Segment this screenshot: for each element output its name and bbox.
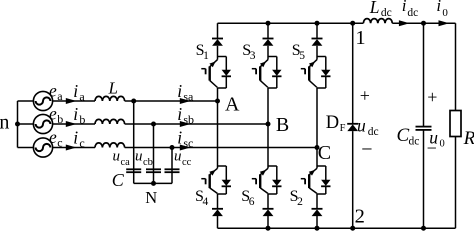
current arrow i_sb <box>177 104 194 127</box>
wire S3 to node <box>267 88 269 124</box>
svg-text:u: u <box>135 149 143 165</box>
ac source e_c <box>33 127 62 157</box>
svg-text:sc: sc <box>183 136 193 150</box>
wire S5 to node <box>316 88 318 148</box>
svg-text:cb: cb <box>143 157 153 168</box>
wire leg S2 lower <box>316 216 318 228</box>
wire n to source b <box>18 123 34 125</box>
svg-text:5: 5 <box>299 50 305 62</box>
wire n to source a <box>18 100 34 102</box>
svg-text:cc: cc <box>182 157 192 168</box>
wire C_dc lower <box>423 130 425 228</box>
diode series S1 <box>212 39 223 46</box>
svg-text:b: b <box>79 112 85 126</box>
switch S1 IGBT <box>196 42 231 88</box>
wire phase c to node C <box>125 147 317 149</box>
wire node to S6 <box>267 124 269 166</box>
svg-text:i: i <box>177 128 182 148</box>
junction tap phase a <box>131 99 136 104</box>
svg-text:dc: dc <box>381 7 392 19</box>
wire node to S4 <box>217 101 219 166</box>
junction top C_dc <box>421 21 426 26</box>
capacitor u_cb <box>135 124 161 183</box>
svg-text:sb: sb <box>183 112 194 126</box>
svg-text:i: i <box>73 81 78 101</box>
switch S6 IGBT <box>241 166 281 208</box>
svg-text:u: u <box>174 149 182 165</box>
node A <box>215 93 240 115</box>
svg-text:e: e <box>49 81 57 101</box>
wire phase b to L <box>53 123 95 125</box>
switch S5 IGBT <box>292 42 331 88</box>
current arrow i_b <box>66 104 86 127</box>
junction bottom leg3 <box>315 226 320 231</box>
svg-text:F: F <box>340 123 346 134</box>
svg-text:−: − <box>427 138 437 158</box>
wire D_F branch upper <box>352 23 354 124</box>
svg-text:L: L <box>369 0 380 17</box>
svg-text:+: + <box>360 85 370 105</box>
wire S4 to diode <box>217 194 219 209</box>
svg-text:1: 1 <box>355 27 365 49</box>
switch S4 IGBT <box>195 166 231 208</box>
current arrow i_sa <box>177 81 194 104</box>
svg-text:ca: ca <box>121 157 131 168</box>
junction tap phase b <box>151 122 156 127</box>
svg-text:dc: dc <box>368 126 379 138</box>
svg-text:−: − <box>361 139 372 161</box>
wire S3 to IGBT <box>267 46 269 57</box>
svg-text:n: n <box>0 112 9 134</box>
junction tap phase c <box>170 145 175 150</box>
svg-text:e: e <box>49 104 57 124</box>
switch S3 IGBT <box>242 42 281 88</box>
svg-text:i: i <box>436 0 441 15</box>
svg-text:2: 2 <box>355 205 365 227</box>
wire left rail <box>17 101 19 148</box>
node 2 <box>350 205 365 230</box>
svg-text:C: C <box>112 170 125 190</box>
current arrow i_a <box>66 81 86 104</box>
svg-text:dc: dc <box>407 7 418 19</box>
svg-text:+: + <box>427 87 437 107</box>
resistor R <box>450 111 474 150</box>
junction top leg2 <box>266 21 271 26</box>
svg-text:2: 2 <box>297 196 303 208</box>
wire R branch upper <box>455 23 457 110</box>
label u_dc <box>357 85 379 160</box>
svg-text:C: C <box>318 142 331 164</box>
node B <box>266 114 290 136</box>
svg-text:i: i <box>177 81 182 101</box>
wire node to S2 <box>316 148 318 167</box>
wire phase a to node A <box>125 100 218 102</box>
svg-text:u: u <box>357 115 366 135</box>
svg-text:sa: sa <box>183 89 194 103</box>
diode series S3 <box>263 39 274 46</box>
wire leg S1 upper <box>217 23 219 38</box>
svg-text:1: 1 <box>203 50 209 62</box>
svg-text:L: L <box>108 79 118 98</box>
svg-text:R: R <box>463 128 474 149</box>
current arrow i_dc <box>399 0 418 26</box>
ac source e_b <box>33 104 63 134</box>
diode series S2 <box>312 209 323 216</box>
wire phase c to L <box>53 147 95 149</box>
capacitor u_cc <box>165 148 192 184</box>
inductor L_dc <box>363 0 392 23</box>
wire S1 to node <box>217 88 219 101</box>
wire D_F branch lower <box>352 131 354 228</box>
diode D_F <box>326 113 359 134</box>
wire S5 to IGBT <box>316 46 318 57</box>
inductor phase c <box>95 143 125 148</box>
node N <box>134 181 172 207</box>
diode series S6 <box>263 209 274 216</box>
svg-text:0: 0 <box>442 7 448 19</box>
ac source e_a <box>33 81 63 111</box>
inductor L phase a <box>95 79 125 102</box>
bottom dc bus <box>218 227 456 229</box>
current arrow i_sc <box>177 128 193 151</box>
junction top leg3 <box>315 21 320 26</box>
svg-text:i: i <box>177 104 182 124</box>
svg-text:i: i <box>73 128 78 148</box>
svg-text:N: N <box>145 188 157 207</box>
svg-text:4: 4 <box>203 196 209 208</box>
switch S2 IGBT <box>290 166 331 208</box>
svg-text:6: 6 <box>249 196 255 208</box>
diode series S4 <box>212 209 223 216</box>
label C <box>112 170 125 190</box>
node 1 <box>350 21 365 50</box>
svg-text:A: A <box>225 93 240 115</box>
svg-text:i: i <box>73 104 78 124</box>
junction bottom leg2 <box>266 226 271 231</box>
svg-text:a: a <box>79 89 85 103</box>
wire S6 to diode <box>267 194 269 209</box>
wire R branch lower <box>455 137 457 229</box>
wire S2 to diode <box>316 194 318 209</box>
svg-text:3: 3 <box>250 50 256 62</box>
inductor phase b <box>95 119 125 124</box>
svg-text:e: e <box>49 127 57 147</box>
wire phase b to node B <box>125 123 268 125</box>
svg-text:u: u <box>113 149 121 165</box>
svg-text:dc: dc <box>409 136 420 148</box>
svg-text:c: c <box>79 136 84 150</box>
node C <box>315 142 332 164</box>
svg-text:B: B <box>276 114 289 136</box>
node n <box>0 112 20 134</box>
svg-text:D: D <box>326 113 339 133</box>
junction bottom C_dc <box>421 226 426 231</box>
capacitor C_dc <box>397 125 432 148</box>
svg-text:i: i <box>402 0 407 15</box>
wire leg S3 upper <box>267 23 269 38</box>
wire n to source c <box>18 147 34 149</box>
wire phase a to L <box>53 100 95 102</box>
wire C_dc upper <box>423 23 425 126</box>
diode series S5 <box>312 39 323 46</box>
wire leg S6 lower <box>267 216 269 228</box>
wire leg S4 lower <box>217 216 219 228</box>
capacitor u_ca <box>113 101 142 183</box>
current arrow i_c <box>66 128 85 151</box>
top dc bus <box>218 22 456 24</box>
svg-text:0: 0 <box>440 138 445 149</box>
label u_0 <box>427 87 445 158</box>
wire S1 to IGBT <box>217 46 219 57</box>
wire leg S5 upper <box>316 23 318 38</box>
current arrow i_0 <box>436 0 449 26</box>
